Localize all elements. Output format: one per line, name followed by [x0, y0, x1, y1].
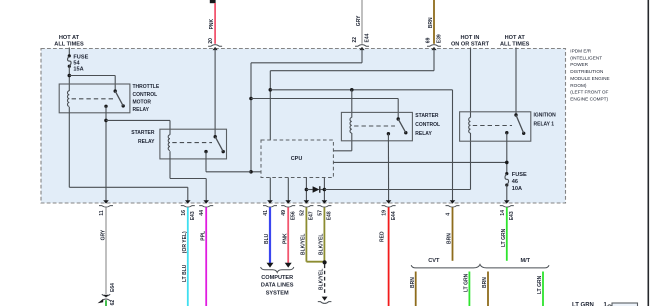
wire BLK/YEL (pin 57): [323, 207, 325, 261]
wire GRY (pin 11): [105, 207, 107, 294]
svg-text:LT GRN: LT GRN: [572, 303, 594, 306]
node: junction GRY riser / starter relay output: [249, 170, 253, 174]
brace: CVT / M/T wire split: [411, 264, 549, 268]
wire frame line (page border, right edge): [647, 0, 649, 306]
wire GRY (top): [361, 0, 363, 44]
svg-text:IGNITION: IGNITION: [534, 112, 557, 118]
svg-text:E43: E43: [190, 211, 196, 220]
wire: GRY pin 22 run down-left to CPU: [361, 49, 363, 63]
svg-text:(OR YEL): (OR YEL): [182, 231, 188, 253]
wire BRN (CVT branch 1): [415, 272, 417, 306]
dashed actuation link: starter control relay: [354, 125, 395, 127]
svg-text:BRN: BRN: [482, 277, 488, 288]
node: junction below fuse 54: [68, 74, 72, 78]
node: IPDM pin 44 exit: [203, 200, 209, 203]
svg-text:HOT AT: HOT AT: [505, 35, 526, 41]
svg-text:STARTER: STARTER: [415, 113, 439, 119]
svg-text:ROOM): ROOM): [570, 83, 587, 88]
svg-text:RELAY: RELAY: [415, 131, 432, 137]
node: splice of BLK/YEL grounds: [323, 260, 327, 264]
svg-text:BLK/YEL: BLK/YEL: [301, 234, 307, 255]
wire: CPU ground 2 (pin 57): [323, 178, 325, 201]
svg-text:62: 62: [110, 300, 116, 306]
wire: starter relay coil to pin 44: [169, 151, 171, 178]
svg-text:14: 14: [500, 210, 506, 216]
wire BRN (pin 4): [452, 207, 454, 260]
terminal arrow: BLU to computer data lines: [267, 263, 274, 268]
svg-text:E47: E47: [309, 211, 315, 220]
wire LT GRN (pin 14): [506, 207, 508, 260]
svg-text:57: 57: [317, 210, 323, 216]
switch: starter relay contacts: [214, 135, 217, 138]
svg-text:4: 4: [446, 213, 452, 216]
wire: starter relay output to CPU: [205, 152, 207, 171]
wire LT BLU (OR YEL) (pin 16): [187, 207, 189, 306]
svg-text:CONTROL: CONTROL: [415, 122, 440, 128]
terminal arrow: PNK to computer data lines: [285, 263, 292, 268]
svg-text:46: 46: [512, 179, 518, 185]
node: IPDM pin 14 exit / E43: [504, 200, 510, 203]
wire: fuse to throttle relay coil: [68, 66, 70, 91]
svg-text:E44: E44: [364, 33, 370, 42]
relay THROTTLE CONTROL MOTOR RELAY box: [59, 84, 130, 113]
wire RED (pin 19): [388, 207, 390, 306]
svg-text:RELAY: RELAY: [133, 107, 150, 113]
svg-text:E48: E48: [327, 211, 333, 220]
fuse 46 10A: [505, 172, 508, 175]
svg-text:RELAY 1: RELAY 1: [534, 122, 555, 128]
dashed actuation link: ignition relay 1: [473, 125, 512, 127]
wire: throttle relay output down to pin 11: [105, 106, 107, 200]
wire: BRN pin 69 run down-left to CPU top: [433, 49, 435, 71]
wire: CPU output 2 (pin 49): [287, 178, 289, 201]
svg-text:LT GRN: LT GRN: [464, 273, 470, 292]
wire BRN (top): [433, 0, 435, 44]
op-amp CPU dashed box: [261, 140, 333, 178]
wire PPL (pin 44): [205, 207, 207, 306]
svg-text:1: 1: [604, 303, 608, 306]
wire: CPU ground 1 (pin 52): [305, 178, 307, 201]
svg-text:LT GRN: LT GRN: [501, 228, 507, 247]
node: junction ignition output / CPU sense: [505, 161, 509, 165]
IPDM E/R module dashed box: [41, 49, 566, 204]
switch: ignition relay 1 contacts: [514, 113, 517, 116]
wire: branch to throttle relay switch contact: [69, 75, 115, 77]
wire BLK/YEL (pin 52): [305, 207, 307, 261]
node: junction feed row / starter control relay coil: [350, 88, 354, 92]
wire LT GRN (CVT branch 2): [468, 272, 470, 306]
svg-text:GRY: GRY: [356, 15, 362, 26]
svg-text:IPDM E/R: IPDM E/R: [570, 49, 591, 54]
node: IPDM pin 41 exit: [267, 200, 273, 203]
svg-text:M/T: M/T: [520, 258, 530, 264]
svg-text:E56: E56: [291, 211, 297, 220]
brace: computer data lines group: [261, 267, 294, 272]
relay STARTER RELAY box: [160, 129, 227, 159]
coil: throttle relay: [68, 91, 70, 107]
svg-text:22: 22: [352, 37, 358, 43]
node: IPDM pin 16 exit / E43: [185, 200, 191, 203]
wire LT GRN (M/T branch 2): [542, 272, 544, 306]
svg-text:19: 19: [382, 210, 388, 216]
svg-text:44: 44: [199, 210, 205, 216]
component box (bottom right, cut off): [612, 303, 638, 306]
svg-text:11: 11: [99, 210, 105, 216]
node: IPDM pin 49 exit / E56: [285, 200, 291, 203]
svg-text:BRN: BRN: [410, 277, 416, 288]
wire: contact feed row to starter control relay switch: [251, 98, 398, 100]
wire BLU (pin 41, data line): [269, 207, 271, 263]
wire: ignition relay output to fuse 46: [506, 133, 508, 174]
svg-text:10A: 10A: [512, 186, 522, 192]
wire: feed to starter control relay coil: [351, 90, 353, 118]
node: junction output / starter relay coil branch: [104, 119, 108, 123]
node: diode tap on pin 52 wire: [305, 188, 309, 192]
svg-text:49: 49: [281, 210, 287, 216]
svg-text:PPL: PPL: [200, 231, 206, 241]
wire: throttle relay coil down and to pin 16: [68, 107, 70, 187]
svg-text:COMPUTER: COMPUTER: [261, 275, 293, 281]
svg-text:ENGINE COMPT): ENGINE COMPT): [570, 97, 608, 102]
svg-text:BLK/YEL: BLK/YEL: [319, 234, 325, 255]
svg-text:CPU: CPU: [291, 156, 303, 162]
svg-text:ON OR START: ON OR START: [451, 42, 490, 48]
svg-text:SYSTEM: SYSTEM: [266, 290, 289, 296]
switch: throttle relay contacts: [114, 89, 117, 92]
svg-text:PNK: PNK: [282, 233, 288, 244]
wire PNK (top, to starter relay contact): [214, 3, 216, 44]
svg-text:15A: 15A: [73, 67, 83, 73]
svg-text:HOT IN: HOT IN: [461, 35, 480, 41]
node: IPDM pin 4 exit: [450, 200, 456, 203]
wire: HOT AT ALL TIMES feed to ignition relay contact: [515, 48, 517, 116]
coil: starter control relay: [350, 118, 352, 134]
svg-text:MOTOR: MOTOR: [133, 99, 152, 105]
svg-text:RELAY: RELAY: [138, 139, 155, 145]
node: junction pin 57 wire / ignition coil return: [323, 188, 327, 192]
coil: ignition relay 1: [469, 118, 471, 134]
wire PNK (pin 49, data line): [287, 207, 289, 263]
wire: CPU to ignition relay output node: [333, 161, 506, 163]
svg-text:GRY: GRY: [101, 229, 107, 240]
svg-text:CVT: CVT: [428, 258, 440, 264]
node: connector at IPDM top, pin 22 / E44: [355, 45, 369, 47]
svg-text:FUSE: FUSE: [512, 172, 527, 178]
wire BRN (M/T branch 1): [487, 272, 489, 306]
node: splice arrow at E64 lower side: [98, 299, 104, 303]
svg-text:HOT AT: HOT AT: [59, 35, 80, 41]
node: junction GRY riser / relay contact feed row: [249, 97, 253, 101]
svg-text:DISTRIBUTION: DISTRIBUTION: [570, 69, 603, 74]
wire: CPU output 1 (pin 41): [269, 178, 271, 201]
svg-text:(LEFT FRONT OF: (LEFT FRONT OF: [570, 90, 608, 95]
svg-text:52: 52: [299, 210, 305, 216]
wire: starter control relay output to pin 19: [387, 134, 389, 201]
svg-text:E43: E43: [509, 211, 515, 220]
wire: fuse 46 to pin 14: [506, 185, 508, 201]
svg-text:STARTER: STARTER: [131, 130, 155, 136]
wire: ignition relay 1 coil return: [324, 189, 470, 191]
svg-text:POWER: POWER: [570, 62, 588, 67]
node: junction BRN riser / relay row: [269, 88, 273, 92]
node: in-line connector E64: [102, 294, 110, 296]
node: IPDM pin 52 exit / E47: [304, 200, 310, 203]
svg-text:BLU: BLU: [264, 233, 270, 244]
node: connector at IPDM top, pin 69 / E39: [427, 45, 441, 47]
junction block (black square at top of PNK wire): [210, 0, 216, 3]
wire BLK/YEL (dashed continuation to ground): [324, 265, 326, 296]
wire GRN (below connector E64): [105, 300, 107, 306]
dashed actuation link: starter relay: [172, 142, 212, 144]
svg-text:69: 69: [426, 37, 432, 43]
svg-text:(INTELLIGENT: (INTELLIGENT: [570, 55, 602, 60]
switch: starter control relay contacts: [397, 117, 400, 120]
svg-text:BRN: BRN: [428, 17, 434, 28]
svg-text:ALL TIMES: ALL TIMES: [500, 42, 530, 48]
svg-text:RED: RED: [380, 231, 386, 242]
fuse 54 15A: [68, 54, 71, 57]
wire: HOT AT ALL TIMES feed into fuse 54: [68, 48, 70, 57]
svg-text:LT BLU: LT BLU: [182, 264, 188, 282]
svg-text:20: 20: [208, 38, 214, 44]
dashed actuation link: throttle relay: [72, 98, 116, 100]
svg-text:ALL TIMES: ALL TIMES: [54, 42, 84, 48]
node: connector at IPDM top, pin 20: [208, 45, 222, 47]
svg-text:E44: E44: [391, 211, 397, 220]
svg-text:THROTTLE: THROTTLE: [133, 84, 160, 90]
relay IGNITION RELAY 1 box: [460, 112, 531, 141]
wire: HOT IN ON OR START feed to ignition relay coil: [470, 48, 472, 118]
wire: branch to starter relay coil: [106, 119, 170, 121]
svg-text:LT GRN: LT GRN: [537, 275, 543, 294]
svg-text:MODULE ENGINE: MODULE ENGINE: [570, 76, 609, 81]
svg-text:BRN: BRN: [447, 233, 453, 244]
svg-text:E39: E39: [436, 34, 442, 43]
coil: starter relay: [168, 135, 170, 151]
svg-text:CONTROL: CONTROL: [133, 92, 158, 98]
svg-text:BLK/YEL: BLK/YEL: [319, 269, 325, 290]
node: IPDM pin 19 exit / E44: [386, 200, 392, 203]
relay STARTER CONTROL RELAY box: [341, 112, 412, 140]
svg-text:PNK: PNK: [209, 18, 215, 29]
node: IPDM pin 11 exit: [103, 200, 109, 203]
diode D1: [306, 189, 312, 191]
svg-text:16: 16: [181, 210, 187, 216]
svg-text:DATA LINES: DATA LINES: [261, 283, 294, 289]
wire: PNK pin 20 down to starter relay switch contact: [214, 49, 216, 137]
node: IPDM pin 57 exit / E48: [322, 200, 328, 203]
label: IPDM E/R (INTELLIGENT POWER DISTRIBUTION MODULE ENGINE ROOM) (LEFT FRONT OF ENGINE COMPT): [570, 49, 609, 102]
svg-text:41: 41: [263, 210, 269, 216]
wire: CPU to starter control relay coil: [333, 150, 351, 152]
svg-text:E64: E64: [110, 283, 116, 292]
wire: relay feed row to BRN output pin 4: [270, 89, 452, 91]
